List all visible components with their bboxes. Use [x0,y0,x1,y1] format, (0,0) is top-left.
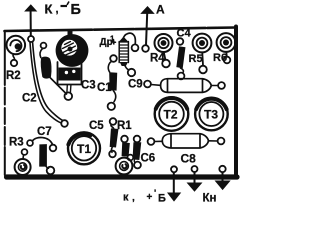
svg-text:С8: С8 [181,152,197,166]
svg-text:Т3: Т3 [204,108,218,122]
svg-text:R1: R1 [117,120,132,132]
svg-text:К: К [45,2,53,17]
svg-text:Т2: Т2 [164,108,178,122]
svg-text:С9: С9 [128,79,143,91]
svg-text:R4: R4 [150,53,165,65]
svg-text:1: 1 [110,35,115,44]
svg-text:R6: R6 [213,52,227,64]
svg-text:С7: С7 [37,126,52,138]
svg-text:С5: С5 [89,120,104,132]
svg-text:,: , [56,4,59,16]
svg-text:Т1: Т1 [77,142,91,156]
svg-text:R2: R2 [6,70,21,82]
svg-text:С6: С6 [141,153,156,165]
svg-text:С1: С1 [97,82,112,94]
svg-text:': ' [154,188,156,198]
svg-text:Кн: Кн [203,193,217,205]
svg-text:А: А [156,2,165,16]
svg-text:C4: C4 [177,28,192,40]
svg-text:С3: С3 [81,80,96,92]
svg-text:,: , [132,193,135,204]
svg-text:к: к [123,192,129,204]
svg-text:R5: R5 [189,53,203,65]
svg-text:Б: Б [158,193,166,205]
svg-text:Б: Б [71,2,81,18]
svg-text:+: + [147,192,153,203]
svg-text:С2: С2 [22,93,37,105]
svg-text:R3: R3 [9,137,24,149]
